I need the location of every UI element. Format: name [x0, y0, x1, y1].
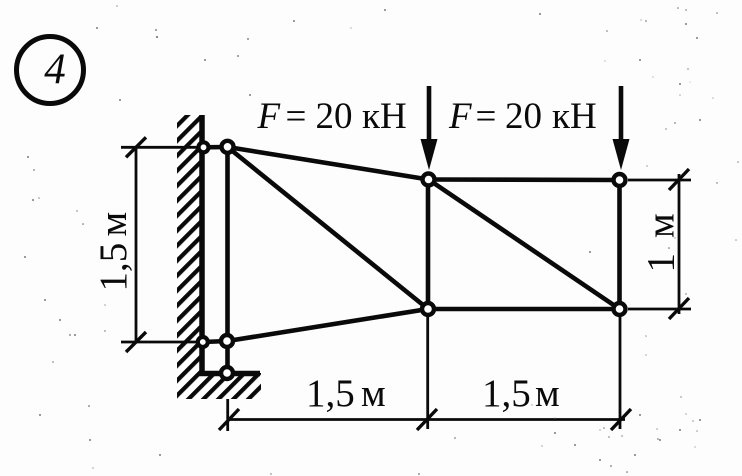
link N4-N5 — [225, 341, 230, 373]
force arrow 1 shaft — [427, 86, 432, 152]
node C — [423, 174, 435, 186]
dimension line bottom — [228, 418, 625, 421]
wall face vertical line — [199, 115, 205, 373]
svg-text:F: F — [257, 96, 281, 137]
svg-text:4: 4 — [44, 46, 66, 93]
force arrow 2 shaft — [619, 86, 624, 152]
wall hatching — [177, 115, 261, 399]
member diagonal C-F — [429, 180, 620, 310]
member bottom chord left N4-E — [228, 309, 429, 341]
extension below E — [426, 317, 429, 429]
member vertical right D-F — [617, 180, 622, 309]
link N1-N2 — [203, 145, 228, 150]
svg-text:1: 1 — [640, 253, 683, 273]
tick bottom-left — [126, 332, 146, 352]
tick bottom 1 — [219, 409, 239, 430]
dimension line right vertical — [678, 174, 681, 314]
svg-text:20: 20 — [316, 96, 353, 137]
tick top-right — [669, 169, 689, 190]
force arrow 1 head — [421, 139, 438, 170]
svg-text:F: F — [448, 96, 472, 137]
svg-text:м: м — [92, 212, 135, 237]
dimension extension line top-left — [121, 146, 200, 149]
node N1 — [199, 142, 209, 152]
node N4 — [221, 335, 233, 347]
svg-text:1,5: 1,5 — [306, 372, 355, 415]
svg-text:кН: кН — [362, 96, 407, 137]
svg-text:1,5: 1,5 — [92, 243, 135, 292]
tick bottom-right — [669, 298, 689, 319]
tick bottom 3 — [611, 409, 631, 430]
wall bracket horizontal line — [200, 371, 261, 377]
dimension line left vertical — [135, 147, 138, 342]
dimension extension top-right — [628, 179, 691, 182]
member vertical C-E — [426, 180, 431, 310]
dimension extension line bottom-left — [121, 341, 200, 344]
member top chord left N2-C — [228, 147, 429, 180]
svg-text:кН: кН — [552, 96, 597, 137]
svg-text:1,5: 1,5 — [482, 372, 531, 415]
node N2 — [222, 141, 234, 153]
tick top-left — [126, 137, 146, 157]
member bottom chord right E-F — [428, 307, 620, 312]
dimension extension bottom-right — [628, 308, 691, 311]
extension below wall — [226, 399, 229, 431]
node D — [614, 174, 626, 186]
member diagonal N2-E — [228, 147, 429, 309]
svg-text:=: = — [476, 96, 497, 137]
extension below F — [619, 317, 622, 429]
link N3-N4 — [203, 341, 228, 342]
node F — [614, 303, 626, 315]
problem number badge circle — [17, 37, 84, 104]
tick bottom 2 — [417, 409, 437, 430]
svg-text:м: м — [640, 213, 683, 238]
node N5 — [221, 367, 233, 379]
member vertical N2-N4 — [225, 147, 230, 341]
node E — [422, 303, 434, 315]
svg-text:=: = — [286, 96, 307, 137]
svg-text:м: м — [535, 372, 560, 415]
svg-text:20: 20 — [505, 96, 542, 137]
member top chord right C-D — [429, 177, 620, 182]
node N3 — [198, 337, 208, 347]
force arrow 2 head — [613, 139, 630, 170]
svg-text:м: м — [361, 372, 386, 415]
